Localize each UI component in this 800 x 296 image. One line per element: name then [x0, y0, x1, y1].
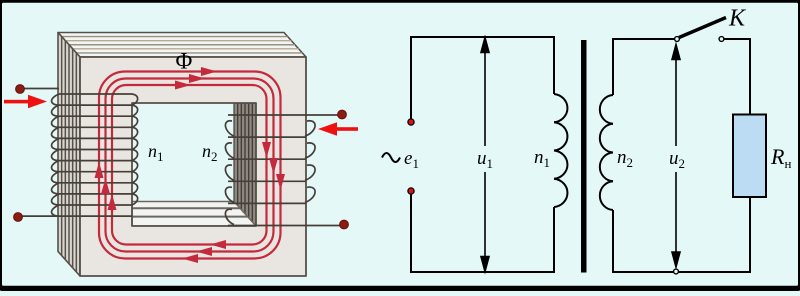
source terminal dot bottom: [408, 188, 414, 194]
voltage arrow u1: [481, 38, 489, 272]
flux loop line outer: [99, 72, 281, 259]
primary loop wires: [411, 37, 554, 272]
coil n2 (schematic): [600, 95, 613, 210]
wire: n2 bottom lead: [306, 225, 344, 227]
terminal dot: n1 top: [16, 85, 25, 94]
flux arrowheads bottom limb (pointing left): [182, 240, 226, 263]
source tilde symbol: [382, 153, 400, 162]
winding n1 left arcs: [52, 94, 59, 216]
winding n2 left bumps in window: [225, 121, 234, 225]
load resistor Rn: [733, 115, 766, 198]
core lamination stack: top face: [58, 33, 306, 58]
terminal dot: n2 bottom: [340, 220, 349, 229]
flux arrowheads right limb (pointing down): [262, 142, 285, 190]
wire: n1 top lead: [21, 88, 59, 90]
flux loop line middle: [106, 79, 274, 252]
core front face: [80, 57, 306, 276]
flux loop line inner: [112, 85, 267, 245]
terminal dot: n1 bottom: [14, 213, 23, 222]
core lamination stack: left face: [58, 33, 80, 277]
winding n2 right arcs: [305, 121, 315, 203]
winding n1 turns (front wires): [59, 94, 132, 205]
bottom node circle: [674, 269, 679, 274]
red input arrow (left, pointing right): [4, 95, 47, 108]
wire: n1 bottom lead: [18, 215, 132, 217]
source terminal dot top: [408, 119, 414, 125]
winding n1 right bumps in window: [132, 94, 138, 205]
core window inner-right lamination face: [234, 103, 256, 226]
coil n1 (schematic): [554, 94, 567, 207]
voltage arrow u2: [672, 45, 680, 268]
switch K hinge node: [675, 37, 680, 42]
svg-text:Φ: Φ: [176, 49, 193, 74]
switch K blade: [679, 18, 726, 38]
terminal dot: n2 top: [338, 110, 347, 119]
secondary loop wires: [613, 39, 750, 272]
transformer core bar: [581, 40, 587, 273]
flux arrowheads top limb (pointing right): [175, 67, 217, 90]
winding n2 turns (front wires): [228, 115, 306, 226]
wire: n2 top lead: [306, 114, 342, 116]
switch K contact node: [719, 37, 724, 42]
core window opening (background): [132, 103, 256, 226]
core window inner-bottom lamination face: [132, 202, 256, 227]
svg-text:K: K: [728, 6, 747, 32]
red output arrow (right, pointing left): [318, 122, 358, 135]
flux arrowheads left limb (pointing up): [95, 162, 117, 210]
